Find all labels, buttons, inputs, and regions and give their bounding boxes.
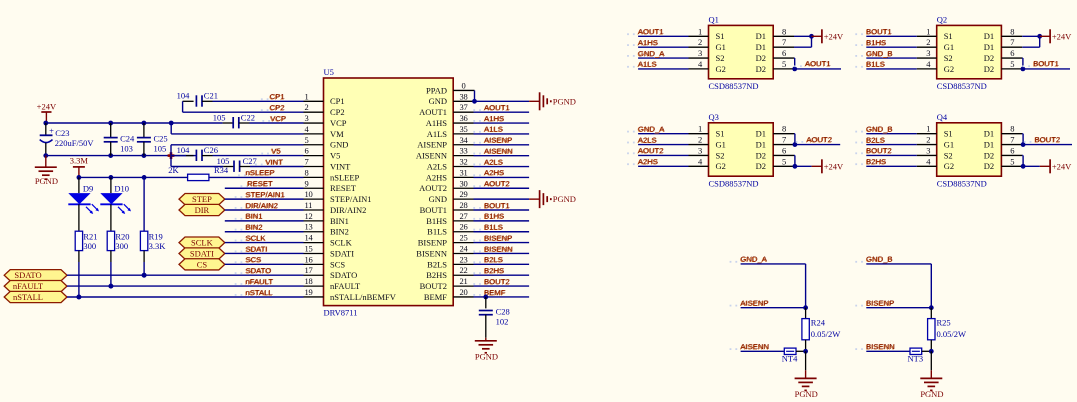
wire R19 column	[143, 177, 145, 231]
node BISENP net label (sense)	[855, 305, 857, 307]
node BOUT2 net label at Q4	[1024, 141, 1026, 143]
node AOUT1 net label at Q1	[794, 65, 796, 67]
svg-text:32: 32	[460, 157, 468, 167]
wire AOUT2 net (pin 30)	[474, 187, 530, 189]
svg-text:BISENP: BISENP	[484, 233, 512, 242]
wire AOUT1 output net	[795, 68, 841, 70]
wire SCLK net	[225, 242, 304, 244]
svg-text:AOUT1: AOUT1	[638, 27, 664, 36]
svg-text:1: 1	[305, 91, 309, 101]
svg-text:6: 6	[305, 146, 309, 156]
svg-text:19: 19	[305, 287, 313, 297]
svg-text:8: 8	[305, 167, 309, 177]
svg-text:C26: C26	[204, 145, 218, 155]
svg-text:7: 7	[305, 157, 309, 167]
svg-text:+24V: +24V	[37, 102, 57, 112]
node CP1 net label	[261, 98, 263, 100]
capacitor C23	[45, 123, 47, 135]
svg-text:D1: D1	[756, 31, 766, 41]
svg-text:1: 1	[926, 124, 930, 134]
svg-text:G2: G2	[716, 161, 726, 171]
svg-text:A1LS: A1LS	[484, 125, 503, 134]
svg-text:B2LS: B2LS	[484, 255, 503, 264]
port nFAULT	[4, 281, 67, 292]
node B2LS net label	[473, 261, 475, 263]
svg-text:2: 2	[926, 135, 930, 145]
wire BISENP net (pin 25)	[474, 242, 530, 244]
svg-text:R21: R21	[83, 231, 97, 241]
svg-text:A1HS: A1HS	[638, 38, 658, 47]
node STEP/AIN1 net label	[235, 196, 237, 198]
wire Q4 drain D2 pair	[1021, 154, 1024, 156]
node junction AISENN	[803, 349, 808, 354]
svg-text:B1LS: B1LS	[484, 223, 503, 232]
svg-text:3.3M: 3.3M	[70, 155, 89, 165]
node rail junction D10	[109, 175, 114, 180]
wire R19 column to SDATO	[143, 251, 145, 262]
svg-text:B1LS: B1LS	[427, 227, 447, 237]
svg-text:B2LS: B2LS	[866, 135, 885, 144]
port DIR	[179, 204, 225, 215]
node GND red cross junction	[168, 154, 175, 157]
svg-text:S1: S1	[944, 129, 953, 139]
node B1HS net label	[473, 218, 475, 220]
svg-text:4: 4	[926, 156, 931, 166]
svg-text:CSD88537ND: CSD88537ND	[709, 179, 759, 189]
svg-text:6: 6	[1010, 48, 1014, 58]
LED D9	[78, 177, 80, 193]
svg-text:2: 2	[698, 135, 702, 145]
svg-text:SCS: SCS	[246, 255, 262, 264]
svg-text:5: 5	[782, 59, 786, 69]
svg-text:104: 104	[177, 145, 191, 155]
svg-text:PGND: PGND	[475, 352, 498, 362]
svg-text:38: 38	[460, 91, 468, 101]
node junction Q2 D2	[1021, 67, 1026, 72]
svg-text:R34: R34	[214, 165, 229, 175]
resistor R19	[140, 231, 147, 250]
wire Q2 drain D1 pair	[1022, 35, 1039, 37]
svg-text:4: 4	[698, 59, 703, 69]
node GND_A net label at Q1	[627, 55, 629, 57]
wire GND pin38 to PGND	[475, 100, 530, 102]
ground PGND (R25)	[930, 351, 932, 370]
svg-text:VINT: VINT	[266, 157, 284, 166]
power +24V at Q4	[1023, 165, 1040, 167]
svg-text:2: 2	[926, 37, 930, 47]
svg-text:S2: S2	[944, 150, 953, 160]
svg-text:4: 4	[698, 156, 703, 166]
capacitor C25	[143, 123, 145, 138]
svg-text:AISENP: AISENP	[417, 140, 447, 150]
wire CP2 net	[182, 101, 184, 112]
svg-text:GND_A: GND_A	[638, 49, 665, 58]
svg-text:3.3K: 3.3K	[149, 241, 167, 251]
svg-text:R24: R24	[811, 318, 826, 328]
svg-text:31: 31	[460, 167, 468, 177]
svg-text:7: 7	[1010, 135, 1014, 145]
svg-text:5: 5	[305, 135, 309, 145]
svg-text:C28: C28	[496, 307, 510, 317]
svg-text:RESET: RESET	[247, 179, 273, 188]
svg-text:PGND: PGND	[920, 389, 943, 399]
node BOUT1 net label at Q2	[855, 33, 857, 35]
svg-text:BIN1: BIN1	[246, 212, 263, 221]
svg-text:nSLEEP: nSLEEP	[330, 172, 360, 182]
svg-text:S2: S2	[944, 53, 953, 63]
svg-text:C25: C25	[154, 133, 168, 143]
svg-text:G1: G1	[944, 42, 954, 52]
svg-text:A2LS: A2LS	[427, 161, 448, 171]
svg-text:CSD88537ND: CSD88537ND	[937, 81, 987, 91]
svg-text:BIN2: BIN2	[246, 223, 263, 232]
svg-text:A1HS: A1HS	[426, 118, 448, 128]
svg-text:28: 28	[460, 200, 468, 210]
svg-text:13: 13	[305, 222, 313, 232]
wire AISENP net (pin 34)	[474, 144, 530, 146]
svg-text:R25: R25	[937, 318, 951, 328]
svg-text:AISENP: AISENP	[484, 136, 512, 145]
Q1 left input wires	[638, 35, 688, 37]
svg-text:SDATO: SDATO	[246, 266, 272, 275]
transistor Q3 CSD88537ND body	[709, 123, 774, 176]
svg-text:SCS: SCS	[330, 259, 345, 269]
wire nFAULT net	[67, 285, 304, 287]
svg-text:2: 2	[305, 102, 309, 112]
svg-text:26: 26	[460, 222, 468, 232]
svg-text:G1: G1	[716, 139, 726, 149]
node SDATO net label	[235, 272, 237, 274]
svg-text:C24: C24	[120, 133, 135, 143]
svg-text:1: 1	[698, 26, 702, 36]
wire A2LS net (pin 32)	[474, 166, 530, 168]
svg-text:6: 6	[782, 48, 786, 58]
svg-text:Q3: Q3	[709, 112, 719, 122]
svg-text:B2HS: B2HS	[866, 157, 886, 166]
svg-text:7: 7	[782, 135, 786, 145]
svg-text:nFAULT: nFAULT	[246, 277, 274, 286]
svg-text:102: 102	[496, 317, 509, 327]
svg-text:35: 35	[460, 124, 468, 134]
svg-text:3: 3	[305, 113, 309, 123]
node junction SDATO	[142, 273, 147, 278]
resistor R21	[75, 231, 82, 250]
svg-text:D2: D2	[756, 161, 766, 171]
svg-text:CP1: CP1	[270, 92, 285, 101]
svg-text:BOUT1: BOUT1	[1033, 59, 1059, 68]
node AISENP net label	[473, 142, 475, 144]
capacitor C28	[485, 297, 487, 308]
wire GND to pin 5	[170, 145, 172, 156]
wire B1LS net (pin 26)	[474, 231, 530, 233]
node A1HS net label	[473, 120, 475, 122]
svg-text:C23: C23	[55, 128, 69, 138]
node VINT net label	[255, 164, 257, 166]
node BIN1 net label	[235, 218, 237, 220]
svg-text:SDATI: SDATI	[246, 244, 268, 253]
svg-text:G2: G2	[716, 64, 726, 74]
svg-text:nSLEEP: nSLEEP	[246, 168, 275, 177]
svg-text:5: 5	[782, 156, 786, 166]
node CP2 net label	[261, 109, 263, 111]
node junction Q3 D2	[793, 164, 798, 169]
svg-text:SDATI: SDATI	[330, 248, 354, 258]
svg-text:30: 30	[460, 178, 468, 188]
node GND_B net label (sense)	[855, 261, 857, 263]
node junction BISENN	[929, 349, 934, 354]
svg-text:S1: S1	[716, 31, 725, 41]
svg-text:R19: R19	[149, 231, 163, 241]
svg-text:D2: D2	[984, 53, 994, 63]
svg-text:6: 6	[1010, 145, 1014, 155]
wire A1LS net (pin 35)	[474, 133, 530, 135]
U5 left pin stubs 1-19	[304, 100, 324, 102]
svg-text:CSD88537ND: CSD88537ND	[709, 81, 759, 91]
svg-text:A2HS: A2HS	[484, 168, 504, 177]
node A1LS net label at Q1	[627, 66, 629, 68]
node GND junction at C25	[142, 153, 147, 158]
svg-text:300: 300	[115, 241, 128, 251]
wire GND pin29 to PGND	[474, 198, 530, 200]
capacitor C21	[183, 100, 194, 102]
node junction BEMF	[483, 295, 488, 300]
svg-text:D1: D1	[756, 42, 766, 52]
node AOUT2 net label at Q3	[796, 141, 798, 143]
Q3 right pin stubs	[773, 133, 794, 135]
wire BEMF net (pin 20)	[474, 296, 530, 298]
node BOUT1 net label at Q2	[1022, 65, 1024, 67]
port STEP	[179, 194, 225, 205]
svg-text:GND_A: GND_A	[741, 255, 768, 264]
svg-text:U5: U5	[324, 67, 334, 77]
svg-text:S1: S1	[716, 129, 725, 139]
svg-text:29: 29	[460, 189, 468, 199]
wire Q1 drain D2 pair	[793, 57, 796, 59]
svg-text:37: 37	[460, 102, 468, 112]
Q1 left pin stubs	[689, 35, 709, 37]
svg-text:AOUT1: AOUT1	[805, 59, 831, 68]
svg-text:7: 7	[782, 37, 786, 47]
node B2LS net label at Q4	[855, 142, 857, 144]
node junction Q1 D1	[809, 34, 814, 39]
svg-text:BEMF: BEMF	[424, 292, 447, 302]
Q2 left pin stubs	[917, 35, 937, 37]
svg-text:NT4: NT4	[782, 353, 798, 363]
resistor R20	[107, 231, 114, 250]
svg-text:Q2: Q2	[937, 14, 947, 24]
svg-text:V5: V5	[330, 151, 340, 161]
wire BOUT2 output net	[1023, 144, 1072, 146]
svg-text:A2LS: A2LS	[484, 157, 503, 166]
svg-text:VINT: VINT	[330, 161, 351, 171]
svg-text:104: 104	[177, 91, 191, 101]
Q3 left input wires	[638, 133, 688, 135]
svg-text:24: 24	[460, 243, 469, 253]
node A2LS net label	[473, 164, 475, 166]
svg-text:B1LS: B1LS	[866, 60, 885, 69]
svg-text:CS: CS	[197, 259, 208, 269]
svg-text:D9: D9	[83, 183, 93, 193]
svg-text:A1HS: A1HS	[484, 114, 504, 123]
node AISENN net label (sense)	[730, 348, 732, 350]
svg-text:G2: G2	[944, 64, 954, 74]
node B1HS net label at Q2	[855, 44, 857, 46]
wire STEP net	[225, 198, 304, 200]
node GND_A net label at Q3	[627, 131, 629, 133]
svg-text:SDATO: SDATO	[330, 270, 357, 280]
ground PGND (pin 29)	[529, 198, 540, 200]
svg-text:B2HS: B2HS	[426, 270, 447, 280]
svg-text:36: 36	[460, 113, 468, 123]
node AOUT1 net label	[473, 109, 475, 111]
node AISENN net label	[473, 153, 475, 155]
ground PGND (pin 38)	[529, 100, 540, 102]
svg-text:GND: GND	[330, 140, 348, 150]
svg-text:25: 25	[460, 233, 468, 243]
svg-text:AOUT2: AOUT2	[638, 146, 664, 155]
svg-text:BOUT2: BOUT2	[420, 281, 447, 291]
svg-text:8: 8	[782, 26, 786, 36]
svg-text:8: 8	[1010, 124, 1014, 134]
IC U5 DRV8711 body	[324, 78, 454, 306]
svg-text:PGND: PGND	[35, 176, 58, 186]
node BEMF net label	[473, 294, 475, 296]
node +24V rail junction at C23	[43, 121, 48, 126]
svg-text:DRV8711: DRV8711	[324, 307, 358, 317]
wire VINT branch	[170, 156, 172, 167]
svg-text:AOUT2: AOUT2	[484, 179, 510, 188]
svg-text:BISENN: BISENN	[416, 248, 447, 258]
node A1LS net label	[473, 131, 475, 133]
svg-text:NT3: NT3	[908, 353, 924, 363]
Q1 right pin stubs	[773, 35, 794, 37]
Q3 left pin stubs	[689, 133, 709, 135]
Q2 left input wires	[866, 35, 916, 37]
wire VM net (pin 4)	[170, 123, 172, 134]
resistor R25	[930, 308, 932, 319]
node rail junction R19	[142, 175, 147, 180]
svg-text:SCLK: SCLK	[330, 238, 353, 248]
net-tie NT4	[783, 350, 785, 352]
svg-text:1: 1	[926, 26, 930, 36]
svg-text:3: 3	[698, 145, 702, 155]
svg-text:V5: V5	[271, 146, 280, 155]
svg-text:AOUT1: AOUT1	[419, 107, 447, 117]
svg-text:D1: D1	[984, 31, 994, 41]
svg-text:G1: G1	[716, 42, 726, 52]
svg-text:+24V: +24V	[824, 161, 844, 171]
svg-text:103: 103	[120, 143, 133, 153]
svg-text:RESET: RESET	[330, 183, 357, 193]
svg-text:G2: G2	[944, 161, 954, 171]
svg-text:BOUT1: BOUT1	[420, 205, 447, 215]
port SDATI	[179, 248, 225, 259]
svg-text:8: 8	[1010, 26, 1014, 36]
node +24V rail junction at C25	[142, 121, 147, 126]
svg-text:+: +	[49, 126, 54, 136]
node junction nSTALL	[76, 295, 81, 300]
svg-text:A2HS: A2HS	[638, 157, 658, 166]
svg-text:AOUT2: AOUT2	[419, 183, 447, 193]
port nSTALL	[4, 291, 67, 302]
svg-text:4: 4	[305, 124, 310, 134]
wire BISENN net (sense)	[866, 350, 910, 352]
svg-text:AISENN: AISENN	[484, 146, 513, 155]
node +24V rail junction VM tap	[169, 121, 174, 126]
svg-text:BOUT2: BOUT2	[484, 277, 510, 286]
node AOUT2 net label at Q3	[627, 152, 629, 154]
node junction Q1 D2	[792, 67, 797, 72]
svg-text:nSTALL: nSTALL	[246, 288, 274, 297]
svg-text:CP1: CP1	[330, 96, 345, 106]
node A2HS net label at Q3	[627, 163, 629, 165]
svg-text:A1LS: A1LS	[638, 60, 657, 69]
svg-text:6: 6	[782, 145, 786, 155]
svg-text:STEP/AIN1: STEP/AIN1	[330, 194, 372, 204]
port SCLK	[179, 237, 225, 248]
svg-text:BISENP: BISENP	[866, 299, 894, 308]
svg-text:GND_B: GND_B	[866, 49, 893, 58]
svg-text:PPAD: PPAD	[426, 85, 447, 95]
svg-text:2K: 2K	[168, 165, 179, 175]
svg-text:D1: D1	[984, 42, 994, 52]
svg-text:SCLK: SCLK	[246, 233, 267, 242]
svg-text:15: 15	[305, 243, 313, 253]
power +24V at Q1	[812, 35, 822, 37]
svg-text:+24V: +24V	[1052, 31, 1072, 41]
wire AISENN net (sense)	[741, 350, 785, 352]
svg-text:10: 10	[305, 189, 313, 199]
svg-text:11: 11	[305, 200, 313, 210]
svg-text:GND: GND	[429, 96, 447, 106]
svg-text:AISENN: AISENN	[416, 151, 447, 161]
wire BOUT1 output net	[1023, 68, 1070, 70]
svg-text:D2: D2	[984, 150, 994, 160]
node junction Q2 D1	[1037, 34, 1042, 39]
LED D10	[110, 177, 112, 193]
node BISENP net label	[473, 240, 475, 242]
svg-text:7: 7	[1010, 37, 1014, 47]
svg-text:nFAULT: nFAULT	[13, 281, 44, 291]
node nSLEEP net label	[238, 174, 240, 176]
svg-text:DIR/AIN2: DIR/AIN2	[330, 205, 366, 215]
ground PGND (R24)	[805, 351, 807, 370]
node VCP net label	[262, 120, 264, 122]
svg-text:D2: D2	[756, 64, 766, 74]
wire B2LS net (pin 23)	[474, 263, 530, 265]
svg-text:D10: D10	[114, 183, 129, 193]
svg-text:1: 1	[698, 124, 702, 134]
wire A2HS net (pin 31)	[474, 176, 530, 178]
svg-text:A1LS: A1LS	[427, 129, 448, 139]
wire SDATO net	[67, 274, 304, 276]
svg-text:0.05/2W: 0.05/2W	[811, 329, 841, 339]
svg-text:AOUT1: AOUT1	[484, 103, 510, 112]
transistor Q4 CSD88537ND body	[937, 123, 1002, 176]
svg-text:S2: S2	[716, 150, 725, 160]
svg-text:D2: D2	[984, 161, 994, 171]
node SCS net label	[235, 261, 237, 263]
wire BIN2 net	[225, 231, 304, 233]
ground PGND (C28)	[485, 338, 487, 341]
wire B2HS net (pin 22)	[474, 274, 530, 276]
node nSTALL net label	[235, 294, 237, 296]
svg-text:8: 8	[782, 124, 786, 134]
wire 3.3M rail (nSLEEP net)	[79, 176, 188, 178]
node junction Q3 D1	[793, 142, 798, 147]
svg-text:33: 33	[460, 146, 468, 156]
svg-text:4: 4	[926, 59, 931, 69]
